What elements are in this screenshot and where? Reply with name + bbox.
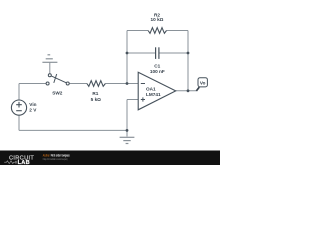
resistor R2 xyxy=(148,28,166,34)
ground (op-amp plus input) xyxy=(120,137,135,143)
wire Vin to switch xyxy=(19,83,46,85)
capacitor C1 xyxy=(156,47,159,59)
output flag Vo xyxy=(196,87,199,91)
svg-text:LAB: LAB xyxy=(18,160,30,165)
wire feedback left vertical xyxy=(126,31,128,84)
wire switch to R1 xyxy=(69,83,87,85)
wire top rail right (R2 to right corner) xyxy=(167,30,189,32)
voltage source Vin xyxy=(11,100,26,115)
svg-text:R1: R1 xyxy=(92,91,98,96)
node junction (bottom rail / ground) xyxy=(126,129,129,132)
svg-text:10 kΩ: 10 kΩ xyxy=(151,17,164,22)
svg-text:LM741: LM741 xyxy=(146,92,161,97)
wire op-amp plus input down xyxy=(126,100,128,137)
svg-text:http://circuitlab.com/cssqwtj: http://circuitlab.com/cssqwtj xyxy=(43,157,68,161)
svg-text:100 nF: 100 nF xyxy=(150,69,165,74)
node junction (output) xyxy=(187,89,190,92)
wire Vin bottom vertical xyxy=(18,115,20,130)
svg-text:SW2: SW2 xyxy=(52,90,63,95)
svg-text:Vo: Vo xyxy=(200,81,206,86)
switch SW2 xyxy=(46,74,69,85)
svg-text:2 V: 2 V xyxy=(29,107,37,112)
wire op-amp plus input horizontal xyxy=(127,99,138,101)
node junction (C1 right) xyxy=(187,52,190,55)
node junction (feedback / minus input) xyxy=(126,82,129,85)
svg-text:C1: C1 xyxy=(154,64,160,69)
wire C1 left xyxy=(127,52,155,54)
resistor R1 xyxy=(87,81,106,87)
wire feedback right vertical xyxy=(187,31,189,91)
CircuitLab logo xyxy=(4,156,34,167)
wire op-amp output xyxy=(176,90,198,92)
ground (switch throw, inverted) xyxy=(42,55,57,63)
node junction (C1 left) xyxy=(126,52,129,55)
wire top rail left (to R2) xyxy=(127,30,148,32)
op-amp OA1 xyxy=(138,72,176,110)
svg-text:5 kΩ: 5 kΩ xyxy=(91,97,102,102)
wire bottom rail xyxy=(19,129,127,131)
wire switch ground stem xyxy=(49,63,51,74)
wire R1 to op-amp minus input xyxy=(106,83,139,85)
wire C1 right xyxy=(159,52,188,54)
svg-text:Vin: Vin xyxy=(29,102,36,107)
CircuitLab banner xyxy=(0,151,220,166)
wire Vin top vertical xyxy=(18,84,20,101)
